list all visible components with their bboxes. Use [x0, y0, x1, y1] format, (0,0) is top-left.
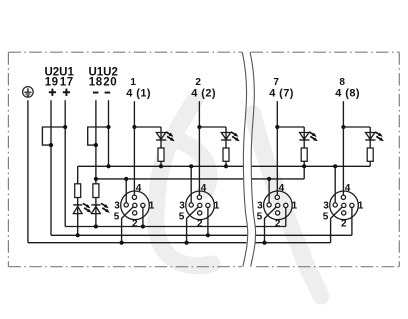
resistor channel 7: [301, 148, 307, 161]
junction: [185, 241, 189, 245]
svg-text:1: 1: [149, 200, 155, 211]
wire pin1 drop 7: [285, 208, 287, 227]
ground: [23, 87, 34, 98]
junction: [132, 125, 136, 129]
wire bus 0V: [96, 178, 304, 180]
wire led column 7: [303, 127, 305, 179]
wire led column 2: [225, 127, 227, 166]
junction: [94, 177, 98, 181]
svg-text:3: 3: [323, 200, 329, 211]
wire led column 8: [369, 127, 371, 166]
svg-text:4 (8): 4 (8): [335, 88, 360, 100]
svg-text:1: 1: [214, 200, 220, 211]
resistor indicator 2: [93, 184, 99, 198]
svg-text:2: 2: [195, 77, 201, 88]
wire pin1 drop 2: [207, 208, 209, 236]
wire signal 7: [276, 101, 278, 195]
junction: [267, 177, 271, 181]
junction: [333, 164, 337, 168]
wire earth vertical: [27, 100, 29, 243]
wire +19 vertical: [50, 100, 52, 235]
wire indicator branch 2: [95, 198, 97, 227]
svg-text:17: 17: [60, 76, 74, 88]
LED channel 7: [299, 132, 318, 142]
junction: [63, 125, 67, 129]
svg-text:18: 18: [89, 76, 103, 88]
jumper + terminals: [42, 127, 65, 145]
junction: [159, 164, 163, 168]
decor: [156, 98, 321, 296]
LED channel 2: [221, 132, 240, 142]
wire pin3 drop 8: [334, 166, 336, 202]
wire branch led 1: [134, 126, 161, 128]
wire -20 vertical: [108, 100, 110, 166]
svg-text:8: 8: [339, 77, 345, 88]
label - -: [93, 92, 110, 94]
wire signal 1: [133, 101, 135, 195]
wire pin1 drop 1: [142, 208, 144, 227]
junction: [94, 143, 98, 147]
svg-text:4 (1): 4 (1): [126, 88, 151, 100]
wire pin5 earth drop 1: [122, 207, 134, 243]
junction: [94, 224, 98, 228]
junction: [275, 125, 279, 129]
junction: [197, 125, 201, 129]
resistor indicator 1: [75, 184, 81, 198]
svg-text:5: 5: [257, 211, 263, 222]
svg-text:4: 4: [201, 183, 207, 194]
junction: [106, 125, 110, 129]
junction: [262, 241, 266, 245]
svg-text:1: 1: [130, 77, 136, 88]
wire bus minus: [78, 165, 371, 167]
svg-text:5: 5: [179, 211, 185, 222]
wire pin5 earth drop 8: [331, 207, 343, 243]
socket M12 port 8: [330, 191, 359, 220]
wire branch led 8: [343, 126, 370, 128]
svg-text:4 (2): 4 (2): [191, 88, 216, 100]
wire led column 1: [160, 127, 162, 166]
junction: [141, 224, 145, 228]
junction: [49, 143, 53, 147]
LED channel 1: [156, 132, 175, 142]
svg-text:7: 7: [273, 77, 279, 88]
wire bus U2+: [51, 234, 352, 236]
wire +17 vertical: [64, 100, 66, 226]
svg-text:5: 5: [114, 211, 120, 222]
svg-text:4: 4: [345, 183, 351, 194]
label 18 20: [89, 76, 117, 88]
socket M12 port 1: [121, 191, 150, 220]
LED indicator 2: [91, 203, 110, 213]
wire bus U1+: [65, 226, 286, 228]
junction: [189, 164, 193, 168]
resistor channel 8: [367, 148, 373, 161]
svg-text:3: 3: [114, 200, 120, 211]
junction: [341, 125, 345, 129]
junction: [206, 233, 210, 237]
junction: [224, 164, 228, 168]
wire branch led 2: [199, 126, 226, 128]
label 19 17: [45, 76, 74, 88]
wire pin3 drop 2: [190, 166, 192, 202]
svg-text:2: 2: [275, 218, 281, 229]
break marks: [242, 52, 255, 267]
svg-text:3: 3: [257, 200, 263, 211]
junction: [106, 164, 110, 168]
wire branch led 7: [277, 126, 304, 128]
wire signal 2: [198, 101, 200, 195]
svg-text:19: 19: [45, 76, 59, 88]
socket M12 port 2: [186, 191, 215, 220]
svg-text:3: 3: [179, 200, 185, 211]
svg-text:2: 2: [341, 218, 347, 229]
wire signal 8: [342, 101, 344, 195]
svg-text:4 (7): 4 (7): [269, 88, 294, 100]
wire earth bus: [28, 242, 331, 244]
junction: [124, 177, 128, 181]
wire indicator branch 1: [77, 166, 79, 235]
junction: [76, 233, 80, 237]
svg-text:5: 5: [323, 211, 329, 222]
svg-text:2: 2: [132, 218, 138, 229]
wire pin3 drop 1: [125, 179, 127, 203]
wire pin5 earth drop 7: [265, 207, 277, 243]
wire pin5 earth drop 2: [187, 207, 199, 243]
wire pin3 drop 7: [268, 179, 270, 203]
socket M12 port 7: [264, 191, 293, 220]
LED channel 8: [365, 132, 384, 142]
jumper - terminals: [88, 127, 109, 145]
svg-text:20: 20: [103, 76, 117, 88]
wire pin1 drop 8: [351, 208, 353, 236]
svg-text:4: 4: [279, 183, 285, 194]
LED indicator 1: [73, 203, 92, 213]
resistor channel 2: [223, 148, 229, 161]
svg-text:4: 4: [136, 183, 142, 194]
wire -18 vertical: [95, 100, 97, 184]
svg-text:1: 1: [358, 200, 364, 211]
junction: [120, 241, 124, 245]
svg-text:2: 2: [197, 218, 203, 229]
svg-text:1: 1: [292, 200, 298, 211]
label + +: [49, 89, 70, 96]
resistor channel 1: [158, 148, 164, 161]
junction: [302, 164, 306, 168]
